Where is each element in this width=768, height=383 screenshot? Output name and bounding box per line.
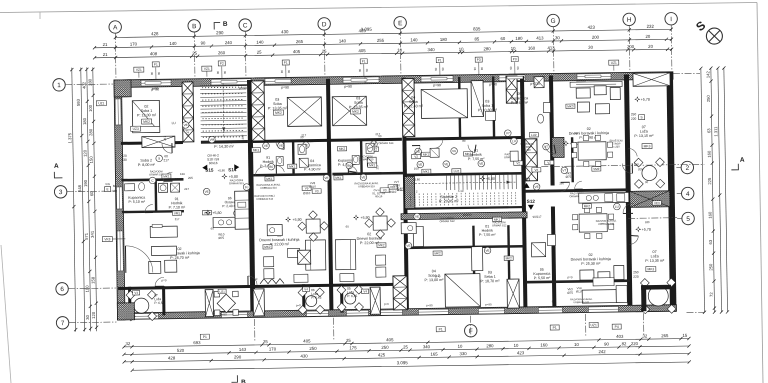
svg-text:75: 75 (534, 138, 538, 142)
svg-text:90: 90 (604, 341, 609, 346)
svg-text:190: 190 (83, 179, 88, 187)
svg-text:428: 428 (151, 31, 159, 36)
svg-text:402: 402 (82, 81, 87, 89)
svg-text:P4: P4 (615, 325, 619, 329)
svg-text:RAZVODNIORMAR S15: RAZVODNIORMAR S15 (229, 178, 245, 185)
svg-text:B: B (241, 379, 246, 383)
svg-text:C: C (243, 22, 248, 29)
svg-text:B0: B0 (347, 164, 351, 168)
svg-text:60: 60 (211, 227, 215, 231)
svg-text:260: 260 (218, 50, 226, 55)
svg-text:180: 180 (440, 37, 448, 42)
bedroom 03 Soba 1 bottom (471, 247, 482, 271)
door arc left wall (125, 245, 152, 272)
svg-text:MK1: MK1 (266, 177, 273, 181)
stairwell C (200, 84, 246, 87)
bedroom Soba (D-E) (332, 96, 366, 126)
right dimension chains (701, 68, 705, 312)
svg-text:165: 165 (430, 352, 438, 357)
svg-text:5: 5 (686, 216, 690, 223)
svg-text:693: 693 (193, 340, 201, 345)
top wall labels (155, 67, 157, 79)
svg-text:571: 571 (84, 232, 89, 240)
svg-text:VE: VE (361, 175, 365, 179)
svg-text:232: 232 (647, 24, 655, 29)
svg-text:V4: V4 (304, 287, 308, 291)
svg-text:430: 430 (300, 353, 308, 358)
svg-text:MK1: MK1 (289, 165, 296, 169)
svg-text:90: 90 (552, 299, 556, 303)
svg-text:180: 180 (645, 220, 650, 224)
svg-text:RAZVOD KUHINJ.UREĐAJA S16: RAZVOD KUHINJ.UREĐAJA S16 (254, 195, 275, 201)
svg-text:S: S (158, 156, 160, 160)
svg-text:1.311: 1.311 (713, 126, 718, 137)
svg-text:V9: V9 (305, 186, 309, 190)
svg-text:p=90: p=90 (433, 83, 441, 87)
svg-text:P2: P2 (220, 62, 224, 66)
svg-text:Vk3Ø75: Vk3Ø75 (567, 287, 573, 295)
svg-text:158: 158 (90, 276, 95, 284)
svg-text:4: 4 (686, 191, 690, 198)
svg-text:p=0: p=0 (567, 275, 572, 279)
svg-text:340: 340 (427, 47, 435, 52)
svg-text:140: 140 (169, 41, 177, 46)
outer wall bottom (117, 305, 676, 320)
svg-text:10: 10 (459, 47, 464, 52)
svg-text:25: 25 (346, 338, 351, 343)
loggia walls bottom (205, 290, 213, 317)
svg-text:3.095: 3.095 (397, 360, 409, 365)
svg-text:VE: VE (324, 176, 328, 180)
grid row bubbles left (53, 79, 66, 92)
svg-text:205: 205 (638, 167, 643, 171)
svg-text:3: 3 (59, 189, 63, 196)
svg-text:10: 10 (574, 342, 579, 347)
section marker B top (214, 22, 220, 29)
svg-text:P1: P1 (362, 59, 366, 63)
svg-text:S13: S13 (397, 187, 406, 192)
svg-text:175: 175 (349, 345, 357, 350)
svg-text:425: 425 (359, 28, 367, 33)
svg-text:90: 90 (358, 68, 362, 72)
svg-text:425: 425 (378, 352, 386, 357)
svg-text:90: 90 (365, 68, 369, 72)
room divider walls vertical thin (458, 77, 461, 139)
svg-text:Ø110: Ø110 (303, 191, 311, 195)
svg-text:90: 90 (434, 67, 438, 71)
svg-text:142: 142 (705, 71, 710, 79)
extra fixture symbols (234, 210, 241, 217)
svg-text:p=90: p=90 (281, 85, 289, 89)
stair piers hatched (251, 81, 265, 141)
svg-text:V2: V2 (547, 161, 551, 165)
svg-text:90: 90 (223, 70, 227, 74)
washing machine + boiler apt1 (159, 183, 168, 192)
svg-text:E: E (398, 20, 402, 27)
svg-text:VE: VE (479, 162, 483, 166)
svg-text:+5,78: +5,78 (642, 228, 651, 232)
windows left (115, 99, 121, 125)
svg-text:255: 255 (377, 38, 385, 43)
outer wall right (666, 72, 676, 312)
svg-text:VZ1: VZ1 (204, 67, 210, 71)
svg-text:341: 341 (90, 230, 95, 238)
svg-text:220: 220 (633, 275, 639, 279)
svg-text:217: 217 (186, 130, 190, 136)
svg-text:MK3: MK3 (647, 267, 654, 271)
svg-text:B: B (223, 21, 228, 28)
svg-text:VK3: VK3 (104, 237, 110, 241)
doors (162, 143, 172, 153)
svg-text:290: 290 (216, 30, 224, 35)
svg-text:250: 250 (381, 345, 389, 350)
svg-text:G: G (551, 18, 556, 25)
bedroom 04 Soba 2 bottom (445, 274, 480, 308)
svg-text:S12: S12 (527, 199, 536, 204)
svg-text:MK2: MK2 (434, 251, 441, 255)
svg-text:160: 160 (707, 211, 712, 219)
section marker B bottom (231, 375, 237, 382)
svg-text:P1: P1 (438, 58, 442, 62)
svg-text:90: 90 (287, 69, 291, 73)
svg-text:P1: P1 (203, 335, 207, 339)
svg-text:548: 548 (77, 184, 82, 192)
svg-text:VE: VE (205, 190, 209, 194)
living top-right (G-I) (570, 81, 622, 87)
svg-text:32: 32 (125, 341, 130, 346)
svg-text:413: 413 (536, 35, 544, 40)
party walls vertical (182, 82, 194, 142)
svg-text:10: 10 (458, 344, 463, 349)
kitchen vent zigzag apt1 (260, 279, 284, 284)
svg-text:H: H (627, 17, 632, 24)
svg-text:MK2: MK2 (264, 245, 271, 249)
bedroom 03 Soba (C-D) (287, 97, 321, 127)
svg-text:LU: LU (512, 139, 516, 143)
shelving column apt1 (235, 191, 250, 229)
svg-text:63: 63 (708, 239, 713, 244)
svg-text:90: 90 (378, 134, 382, 138)
svg-text:21: 21 (103, 42, 108, 47)
svg-text:p=90: p=90 (489, 82, 497, 86)
svg-text:B0: B0 (269, 165, 273, 169)
svg-text:V3: V3 (315, 189, 319, 193)
svg-text:120: 120 (83, 149, 88, 157)
interior walls horizontal (121, 141, 183, 145)
svg-text:VE: VE (184, 123, 188, 127)
svg-text:60: 60 (346, 225, 350, 229)
svg-text:90: 90 (157, 71, 161, 75)
svg-text:265: 265 (296, 39, 304, 44)
svg-text:p=90: p=90 (426, 303, 433, 307)
apt2/3 armchairs + plants (264, 257, 274, 267)
svg-text:VE: VE (416, 150, 420, 154)
svg-text:MK1: MK1 (335, 176, 342, 180)
svg-text:P1: P1 (284, 61, 288, 65)
svg-text:90: 90 (300, 135, 304, 139)
svg-text:242: 242 (598, 349, 606, 354)
svg-text:90: 90 (473, 67, 477, 71)
svg-text:140: 140 (410, 37, 418, 42)
svg-text:RAZVODNIORMAR S12: RAZVODNIORMAR S12 (440, 216, 456, 223)
svg-text:VE: VE (264, 144, 268, 148)
svg-text:P3: P3 (513, 57, 517, 61)
svg-text:p=90: p=90 (344, 84, 352, 88)
svg-text:+5,80: +5,80 (360, 216, 369, 220)
svg-text:90/217: 90/217 (533, 215, 542, 219)
svg-text:UZ1: UZ1 (98, 101, 104, 105)
svg-text:UZ1: UZ1 (219, 290, 225, 294)
sofa bottom-right unit (582, 290, 616, 304)
svg-text:90: 90 (201, 40, 206, 45)
svg-text:90: 90 (480, 67, 484, 71)
svg-text:170: 170 (130, 41, 138, 46)
svg-text:90: 90 (509, 66, 513, 70)
svg-text:p=90: p=90 (239, 86, 247, 90)
svg-text:MK3: MK3 (644, 144, 651, 148)
svg-text:100: 100 (88, 104, 93, 112)
svg-text:MK1: MK1 (423, 153, 430, 157)
svg-text:32: 32 (642, 333, 647, 338)
svg-text:MK2: MK2 (506, 256, 513, 260)
svg-text:4.10: 4.10 (458, 189, 464, 193)
svg-text:160: 160 (707, 150, 712, 158)
svg-text:180: 180 (515, 36, 523, 41)
loggia 2 bottom (diamond table) (217, 294, 235, 312)
svg-text:1.375: 1.375 (67, 132, 72, 143)
svg-text:290: 290 (234, 354, 242, 359)
svg-text:250: 250 (633, 270, 639, 274)
svg-text:200: 200 (592, 35, 600, 40)
svg-text:MK1: MK1 (369, 163, 376, 167)
svg-text:250: 250 (706, 95, 711, 103)
svg-text:MK2: MK2 (352, 110, 359, 114)
svg-text:V6: V6 (452, 149, 456, 153)
svg-text:+5,80: +5,80 (229, 175, 238, 179)
svg-text:RAZVODNIORMAR S13: RAZVODNIORMAR S13 (359, 155, 374, 161)
windows bottom (133, 313, 158, 319)
paper top edge (0, 3, 757, 13)
svg-text:VT: VT (562, 168, 566, 172)
svg-text:85: 85 (474, 36, 479, 41)
extra label boxes (265, 176, 274, 181)
svg-text:250: 250 (631, 112, 637, 116)
svg-text:140: 140 (256, 40, 264, 45)
outer wall top (114, 72, 673, 88)
svg-text:p=0: p=0 (296, 303, 301, 307)
svg-text:160: 160 (180, 172, 185, 176)
svg-text:VE: VE (485, 249, 489, 253)
svg-text:82: 82 (622, 341, 627, 346)
svg-text:VT: VT (544, 145, 548, 149)
section marker A left (54, 172, 62, 178)
svg-text:180: 180 (82, 117, 87, 125)
svg-text:225: 225 (707, 177, 712, 185)
svg-text:RAZVOD KUHINJ.UREĐAJA S11: RAZVOD KUHINJ.UREĐAJA S11 (596, 220, 617, 226)
paper right edge (757, 3, 763, 383)
svg-text:30: 30 (588, 45, 593, 50)
svg-text:VM: VM (210, 138, 215, 142)
svg-text:413: 413 (547, 45, 555, 50)
svg-text:MK2: MK2 (339, 147, 346, 151)
svg-text:21: 21 (103, 52, 108, 57)
svg-text:120: 120 (91, 311, 96, 319)
svg-text:V2: V2 (535, 168, 539, 172)
svg-text:280: 280 (483, 46, 491, 51)
svg-text:7: 7 (61, 320, 65, 327)
svg-text:P1: P1 (439, 327, 443, 331)
svg-text:330: 330 (459, 351, 467, 356)
outer wall left (114, 80, 125, 320)
svg-text:220: 220 (631, 341, 639, 346)
loggia 3 bottom (306, 296, 317, 307)
svg-text:160/40: 160/40 (463, 213, 472, 217)
svg-text:VM1: VM1 (174, 211, 181, 215)
svg-text:90: 90 (280, 70, 284, 74)
svg-text:430: 430 (281, 29, 289, 34)
grid column bubbles (109, 21, 122, 34)
svg-text:p=0: p=0 (161, 278, 166, 282)
svg-text:217: 217 (310, 139, 315, 143)
svg-text:170: 170 (269, 346, 277, 351)
svg-text:+5,80: +5,80 (413, 177, 421, 181)
svg-text:UZ1: UZ1 (611, 61, 617, 65)
svg-text:p=90: p=90 (220, 312, 227, 316)
dining table top-right (578, 142, 606, 160)
svg-text:MK1: MK1 (163, 174, 170, 178)
svg-text:405: 405 (293, 49, 301, 54)
svg-text:+5,80: +5,80 (486, 177, 495, 181)
fixture symbols middle band (263, 142, 270, 149)
svg-text:+5,80: +5,80 (212, 211, 221, 215)
svg-text:520: 520 (177, 348, 185, 353)
svg-text:593: 593 (76, 98, 81, 106)
svg-text:1: 1 (57, 82, 61, 89)
svg-text:15: 15 (682, 333, 687, 338)
svg-text:10: 10 (397, 48, 402, 53)
corner blocks hatched (114, 80, 131, 97)
svg-text:160: 160 (414, 166, 419, 170)
wardrobe X symbols in walls (298, 250, 311, 264)
svg-text:P1: P1 (553, 326, 557, 330)
svg-text:250: 250 (708, 263, 713, 271)
svg-text:VE: VE (406, 244, 410, 248)
svg-text:217: 217 (175, 217, 180, 221)
svg-text:217: 217 (163, 158, 169, 162)
svg-text:P1: P1 (154, 63, 158, 67)
svg-text:VZ1: VZ1 (136, 68, 142, 72)
svg-text:60: 60 (113, 184, 117, 188)
svg-text:S: S (640, 115, 642, 119)
svg-text:VE: VE (444, 162, 448, 166)
svg-text:160: 160 (559, 181, 564, 185)
svg-text:10: 10 (514, 343, 519, 348)
svg-text:140: 140 (339, 38, 347, 43)
svg-text:130: 130 (121, 158, 127, 162)
svg-text:25: 25 (257, 50, 262, 55)
svg-text:90: 90 (574, 131, 578, 135)
svg-text:LU2: LU2 (454, 169, 460, 173)
svg-text:20: 20 (645, 34, 650, 39)
svg-text:200: 200 (627, 44, 635, 49)
svg-text:143: 143 (239, 347, 247, 352)
svg-text:30: 30 (555, 35, 560, 40)
svg-text:A: A (740, 157, 745, 164)
svg-text:205: 205 (188, 176, 193, 180)
svg-text:p=0: p=0 (384, 302, 389, 306)
svg-text:UZ3: UZ3 (133, 127, 139, 131)
svg-text:p=0: p=0 (252, 277, 257, 281)
svg-text:220: 220 (631, 117, 637, 121)
svg-text:MK1: MK1 (423, 170, 430, 174)
svg-text:E: E (107, 187, 109, 191)
svg-text:p+135: p+135 (530, 82, 540, 86)
compass north symbol (706, 28, 722, 44)
svg-text:+5,80: +5,80 (293, 218, 302, 222)
svg-text:250: 250 (309, 346, 317, 351)
svg-text:+5,80: +5,80 (218, 168, 226, 172)
svg-text:RAZVODNIORMAR S12: RAZVODNIORMAR S12 (492, 221, 507, 227)
svg-text:30: 30 (85, 314, 90, 319)
svg-text:VE: VE (535, 185, 539, 189)
svg-text:280: 280 (486, 343, 494, 348)
svg-text:72: 72 (709, 292, 714, 297)
svg-text:160: 160 (528, 46, 536, 51)
svg-text:VM2: VM2 (593, 167, 600, 171)
svg-text:VE: VE (279, 144, 283, 148)
svg-text:90: 90 (516, 66, 520, 70)
svg-text:25: 25 (322, 49, 327, 54)
wardrobe apt1 (142, 136, 175, 147)
svg-text:90: 90 (175, 177, 179, 181)
svg-text:80: 80 (462, 139, 466, 143)
svg-text:217: 217 (327, 133, 331, 138)
svg-text:217: 217 (241, 134, 245, 139)
svg-text:UZ1: UZ1 (590, 323, 597, 327)
svg-text:405: 405 (386, 337, 394, 342)
svg-text:p=90: p=90 (485, 302, 492, 306)
svg-text:Ø110: Ø110 (393, 183, 400, 187)
kitchen apt1 (213, 217, 249, 228)
bedroom 04 Soba (E-F) (421, 89, 467, 119)
svg-text:150: 150 (89, 156, 94, 164)
svg-text:90: 90 (441, 67, 445, 71)
svg-text:P3: P3 (477, 58, 481, 62)
svg-text:25: 25 (403, 344, 408, 349)
svg-text:A: A (54, 163, 59, 170)
svg-text:MK2: MK2 (275, 111, 282, 115)
svg-text:25: 25 (263, 339, 268, 344)
svg-text:Ø110: Ø110 (389, 190, 397, 194)
svg-text:VE: VE (415, 215, 419, 219)
svg-text:405: 405 (358, 48, 366, 53)
svg-text:Stubište 2P: 20,95 m²: Stubište 2P: 20,95 m² (439, 195, 459, 204)
svg-text:LU2: LU2 (531, 133, 537, 137)
svg-text:90: 90 (150, 71, 154, 75)
svg-text:+5,78: +5,78 (641, 98, 650, 102)
radiator marks along top wall (145, 82, 161, 85)
kitchen counters apt2/3 along D wall (267, 225, 282, 236)
grid bubble F bottom (464, 324, 477, 337)
extra door arcs (276, 142, 284, 150)
svg-text:280: 280 (87, 78, 92, 86)
svg-text:90: 90 (645, 180, 649, 184)
svg-text:20: 20 (648, 44, 653, 49)
svg-text:90: 90 (216, 70, 220, 74)
svg-text:160: 160 (634, 162, 639, 166)
svg-text:MK2: MK2 (143, 120, 150, 124)
bedroom Soba 1 apt1 (132, 100, 159, 132)
